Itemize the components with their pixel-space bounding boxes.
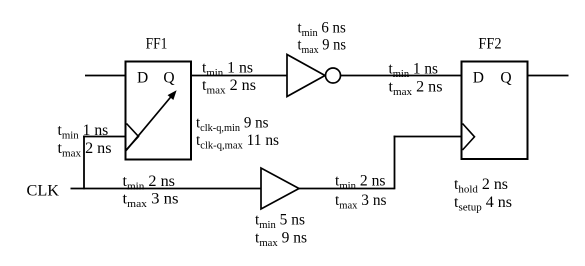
label tmin 5 ns (buffer delay) (255, 212, 305, 232)
FF1 designator label (146, 35, 168, 52)
label tmin 2 ns (buffer output wire) (335, 173, 386, 193)
label tmin 2 ns (CLK wire to buffer) (123, 173, 176, 193)
FF2 pin Q label (500, 70, 511, 87)
label tmax 2 ns (FF1 Q wire) (202, 77, 256, 97)
label tmin 1 ns (FF1 Q wire) (202, 60, 253, 80)
FF2 clock edge triangle (463, 124, 475, 151)
inverter U1 triangle (287, 55, 325, 97)
label tmax 3 ns (CLK wire to buffer) (123, 191, 179, 211)
wire FF1 Q output to inverter (191, 75, 287, 77)
label tmax 9 ns (inverter delay) (298, 37, 347, 57)
FF1 pin Q label (163, 70, 174, 87)
label tclk-q,max 11 ns (196, 132, 279, 152)
wire inverter output to FF2 D (341, 75, 462, 77)
label tmin 1 ns (inverter to FF2 wire) (389, 61, 439, 81)
label tmax 3 ns (buffer output wire) (335, 192, 387, 212)
flip-flop FF2 box (462, 62, 528, 160)
svg-text:CLK: CLK (27, 183, 60, 200)
FF1 clk-to-q arrow (126, 90, 177, 151)
buffer U2 triangle (261, 168, 299, 209)
wire riser from buffer output to FF2 clock (394, 136, 396, 190)
label tmin 6 ns (inverter delay) (298, 20, 346, 40)
label tmin 1 ns (CLK to FF1 path) (58, 122, 109, 142)
svg-text:Q: Q (163, 70, 174, 87)
label thold 2 ns (454, 176, 508, 196)
wire CLK main horizontal (71, 188, 262, 190)
label tmax 2 ns (CLK to FF1 path) (58, 140, 112, 160)
svg-text:FF2: FF2 (478, 35, 501, 52)
wire branch into FF2 clock pin (394, 136, 462, 138)
inverter U1 output bubble (326, 68, 341, 83)
wire buffer output horizontal (299, 188, 395, 190)
label tmax 2 ns (inverter to FF2 wire) (389, 79, 443, 99)
FF2 pin D label (473, 70, 484, 87)
FF1 clock edge triangle (127, 124, 139, 150)
FF1 pin D label (137, 70, 148, 87)
label tmax 9 ns (buffer delay) (255, 230, 307, 250)
svg-text:D: D (137, 70, 148, 87)
wire D input stub of FF1 (85, 75, 126, 77)
svg-text:D: D (473, 70, 484, 87)
svg-text:FF1: FF1 (146, 35, 168, 52)
label tclk-q,min 9 ns (196, 115, 269, 135)
flip-flop FF1 box (126, 62, 192, 160)
wire FF2 Q output (528, 75, 569, 77)
wire riser from CLK to FF1 clock (83, 136, 85, 190)
label tsetup 4 ns (454, 194, 512, 214)
svg-text:Q: Q (500, 70, 511, 87)
FF2 designator label (478, 35, 501, 52)
node CLK label (27, 183, 60, 200)
wire branch into FF1 clock pin (83, 136, 125, 138)
